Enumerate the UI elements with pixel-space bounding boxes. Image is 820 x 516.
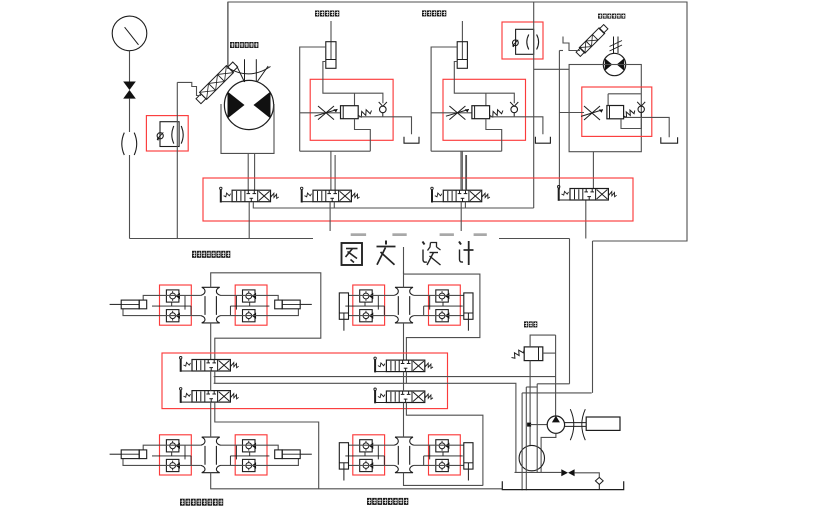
- wire TR cluster feed tee: [403, 274, 405, 287]
- throttle valve c2: [318, 106, 334, 120]
- wire return drop right-outer: [592, 241, 594, 393]
- pilot lines right BL: [230, 455, 269, 457]
- throttle valve 4: [584, 106, 600, 120]
- pilot check block right red frame TR: [429, 285, 461, 325]
- label telescope cylinder: [315, 11, 319, 17]
- check valve c3: [511, 106, 518, 113]
- wire A right TL: [221, 295, 279, 300]
- wire A left TR: [349, 294, 395, 296]
- pilot operated check L2 BL: [166, 459, 179, 471]
- directional valve V6: [313, 190, 351, 202]
- pilot operated check R2 BR: [436, 459, 449, 471]
- pilot lines right BR: [424, 455, 463, 457]
- directional valve V5: [232, 190, 270, 202]
- wire B right TL: [221, 309, 299, 316]
- tank symbol 4: [661, 137, 678, 143]
- wire pilot tee c3: [485, 93, 487, 106]
- directional valve V7: [443, 190, 481, 202]
- pump coupling arcs: [570, 409, 574, 440]
- directional valve V8: [570, 189, 608, 201]
- wire gauge to shutoff: [129, 51, 131, 82]
- pilot check block right red frame BR: [429, 435, 461, 475]
- wire coupling hook to return: [177, 82, 201, 95]
- red frame lower valve bank: [162, 353, 448, 409]
- wire gauge line down to bus: [129, 155, 131, 239]
- wire motor1 return line: [176, 82, 178, 238]
- wire pilot valve branch: [534, 68, 569, 70]
- cross junction block BL: [201, 437, 221, 473]
- pilot operated check R1 TR: [436, 290, 449, 302]
- wire V7 drain drop: [460, 202, 462, 239]
- flow control valve 4 body: [607, 106, 624, 119]
- wire return rail low: [526, 386, 537, 388]
- pilot lines left BL: [152, 455, 191, 457]
- wire V5 drain drop: [248, 202, 250, 239]
- motor M1 mount box: [221, 104, 274, 153]
- pilot check block right red frame TL: [235, 285, 267, 325]
- wire B left TR: [349, 315, 395, 317]
- wire cluster TR feed drop: [403, 239, 405, 275]
- filter F1: [519, 445, 544, 470]
- wire B right TR: [414, 315, 464, 317]
- wire throttle 4 inlet: [559, 112, 584, 114]
- directional valve V12: [386, 391, 424, 403]
- pilot operated check L1 BR: [360, 440, 373, 452]
- wire motor M1 to valve V5 a: [247, 153, 249, 190]
- pilot lines right TR: [424, 305, 463, 307]
- wire to drain check: [575, 473, 600, 478]
- wire return segment B: [537, 383, 569, 385]
- check valve 4: [638, 106, 644, 112]
- motor M2 loop box: [569, 65, 641, 152]
- wire relief drain: [529, 361, 531, 446]
- relief valve RV: [524, 347, 543, 361]
- wire TL cross bottom to valve: [210, 323, 212, 360]
- pilot operated check R2 TL: [243, 310, 256, 322]
- wire TR cluster loop: [404, 274, 480, 360]
- hydraulic motor M1: [224, 80, 273, 129]
- motor M2 shaft marks: [613, 37, 615, 54]
- cylinder left BL: [121, 450, 139, 459]
- wire relief outlet: [543, 352, 556, 354]
- wire BL cross bottom to tank: [211, 473, 503, 489]
- wire V7 tank stub: [464, 202, 466, 208]
- directional valve V10: [192, 391, 230, 403]
- pilot operated check R1 BL: [243, 440, 256, 452]
- flow control spring c3: [490, 110, 503, 117]
- label rotary hydraulic motor: [230, 42, 234, 48]
- pilot lines right TL: [230, 305, 269, 307]
- cylinder right TR: [464, 293, 473, 319]
- wire exit bus c3: [431, 150, 502, 152]
- wire BR cross bottom: [404, 473, 483, 486]
- wire throttle inlet c2: [300, 112, 341, 114]
- wire flow control outlet c2: [358, 117, 411, 134]
- wire B left BR: [349, 464, 395, 466]
- directional valve V9: [192, 360, 230, 372]
- wire pilot loop 4: [621, 119, 641, 129]
- pilot check block left red frame BL: [160, 435, 192, 475]
- pilot operated check R1 BR: [436, 440, 449, 452]
- wire shutoff to hose-break: [129, 99, 131, 132]
- wire to valve a c2: [330, 151, 332, 190]
- wire TR feed visible: [403, 247, 405, 274]
- wire flow control 4 outlet: [624, 117, 670, 137]
- pilot check block right red frame BL: [235, 435, 267, 475]
- junction dot: [527, 423, 531, 427]
- drain check valve: [595, 477, 603, 484]
- wire A right BR: [414, 444, 464, 446]
- pump P1: [547, 416, 564, 433]
- red frame flow control 2: [310, 79, 393, 140]
- red frame pilot valve 4: [502, 22, 543, 59]
- wire tank collector: [515, 471, 562, 473]
- wire mast valve drop: [585, 200, 587, 239]
- wire A right TR: [414, 294, 464, 296]
- pilot operated check R1 TL: [243, 290, 256, 302]
- throttle valve c3: [449, 106, 465, 120]
- wire return drop right-inner: [569, 239, 571, 384]
- cylinder right BL: [282, 450, 300, 459]
- wire motor M2 to valve: [592, 152, 594, 189]
- wire A left BL: [143, 445, 201, 450]
- wire top box drop to coupling: [227, 2, 229, 69]
- wire bypass 4: [607, 94, 609, 106]
- tank symbol c2: [404, 137, 419, 143]
- pilot check block left red frame TR: [353, 285, 385, 325]
- brake valve orifice arcs: [172, 126, 174, 144]
- cylinder right BR: [464, 443, 473, 469]
- wire spine left par: [214, 371, 216, 383]
- watermark halo: [313, 231, 499, 272]
- pilot check block left red frame TL: [160, 285, 192, 325]
- wire motor M1 to valve V5 b: [254, 153, 256, 190]
- pilot valve 4 orifice arcs: [527, 35, 529, 50]
- wire BR jog: [406, 403, 483, 486]
- cylinder left BR: [339, 443, 348, 469]
- wire return drop a: [521, 393, 523, 490]
- label front outrigger: [192, 251, 196, 258]
- shutoff valve V1: [123, 82, 136, 91]
- wire to valve b c2: [334, 155, 336, 190]
- wire cylinder head port c2: [300, 47, 326, 151]
- rotary joint coupling M1: [195, 61, 239, 105]
- wire A left TL: [143, 295, 201, 300]
- watermark remnant dashes: [351, 233, 487, 236]
- wire B right BL: [221, 459, 299, 466]
- wire TL cluster feed loop: [211, 273, 321, 360]
- wire cylinder rod port bypass c2: [323, 62, 383, 104]
- cylinder left TL: [121, 300, 139, 309]
- wire pilot loop c3: [486, 119, 502, 152]
- wire spine right par: [405, 372, 407, 384]
- wire BL jog: [215, 402, 319, 489]
- wire return rail: [214, 383, 516, 472]
- pilot check block left red frame BR: [353, 435, 385, 475]
- cylinder left TR: [339, 293, 348, 319]
- wire cylinder rod line c2: [330, 21, 332, 60]
- pilot valve 4 body: [516, 29, 534, 54]
- wire pilot valve drop: [533, 2, 535, 208]
- watermark text: [342, 243, 363, 265]
- pilot operated check L2 TL: [166, 310, 179, 322]
- wire return rail3: [522, 392, 592, 394]
- wire bottom bus line of top section: [130, 238, 570, 240]
- hydraulic cylinder c3: [457, 42, 467, 69]
- wire spine left low: [210, 402, 212, 437]
- pilot operated check L1 BL: [166, 440, 179, 452]
- cylinder right TL: [282, 300, 300, 309]
- hose break symbol: [122, 133, 125, 155]
- wire V6 drain drop: [329, 202, 331, 239]
- label mast motor: [598, 14, 602, 19]
- wire to valve a c3: [461, 151, 463, 190]
- directional valve V11: [386, 360, 424, 372]
- cross junction block BR: [394, 437, 414, 473]
- wire mast valve feed: [558, 51, 560, 190]
- brake valve body: [160, 122, 179, 147]
- pilot lines left BR: [345, 455, 384, 457]
- label rear outrigger right: [367, 498, 372, 505]
- tank T1: [502, 481, 623, 489]
- label rear outrigger left: [180, 499, 185, 506]
- wire B right BR: [414, 464, 464, 466]
- pilot operated check R2 BL: [243, 459, 256, 471]
- wire throttle inlet c3: [431, 112, 472, 114]
- shutoff valve V2: [561, 469, 568, 476]
- pilot lines left TL: [152, 305, 191, 307]
- label relief valve: [524, 321, 528, 327]
- wire relief pilot top: [530, 335, 556, 347]
- flow control valve body c2: [341, 106, 359, 119]
- wire pump shaft: [565, 422, 587, 424]
- wire to valve b c3: [466, 155, 468, 190]
- wire flow control outlet c3: [490, 117, 543, 134]
- electric motor EM: [586, 417, 620, 430]
- wire TR cross bottom to valve: [403, 323, 405, 360]
- wire cylinder rod port bypass c3: [454, 62, 514, 104]
- pilot operated check R2 TR: [436, 310, 449, 322]
- wire pump pressure line: [555, 335, 557, 416]
- wire B left BL: [123, 459, 201, 466]
- wire V6 tank stub: [333, 202, 335, 208]
- wire V7 feeds: [460, 151, 462, 190]
- check valve c2: [380, 106, 387, 113]
- wire B left TL: [123, 309, 201, 316]
- wire supply rail: [214, 376, 556, 378]
- pilot operated check L1 TL: [166, 290, 179, 302]
- flow control valve body c3: [472, 106, 490, 119]
- wire return drop b: [525, 387, 527, 490]
- hydraulic motor M2: [603, 53, 625, 75]
- wire exit bus c2: [300, 150, 371, 152]
- cross junction block TR: [394, 287, 414, 323]
- hydraulic cylinder c2: [326, 42, 336, 69]
- red frame main valve bank: [203, 178, 633, 221]
- wire A left BR: [349, 444, 395, 446]
- wire coupling hook 4: [563, 37, 580, 51]
- pilot operated check L2 TR: [360, 310, 373, 322]
- pilot operated check L1 TR: [360, 290, 373, 302]
- flow control 4 spring: [624, 110, 635, 117]
- wire spine left mid: [210, 371, 212, 391]
- red frame brake valve: [146, 116, 188, 151]
- wire segment B drop: [536, 384, 538, 473]
- pilot operated check L2 BR: [360, 459, 373, 471]
- wire A right BL: [221, 445, 279, 450]
- wire cylinder rod line c3: [461, 21, 463, 60]
- wire spine right low: [403, 403, 405, 438]
- wire V5 tank branch: [253, 202, 533, 208]
- wire pilot loop c2: [355, 119, 371, 152]
- pressure gauge: [112, 16, 147, 51]
- tank symbol c3: [535, 137, 550, 143]
- red frame flow control 3: [443, 79, 526, 140]
- wire cylinder head port c3: [431, 47, 457, 151]
- wire spine right mid: [403, 372, 405, 391]
- brake valve pilot circle: [157, 133, 163, 139]
- flow control spring c2: [358, 110, 371, 117]
- wire pilot tee c2: [354, 93, 356, 106]
- cross junction block TL: [201, 287, 221, 323]
- red frame flow control 4: [582, 87, 652, 136]
- wire outer boundary of top circuit: [228, 2, 687, 241]
- motor M1 governor fan: [244, 59, 246, 82]
- pilot lines left TR: [345, 305, 384, 307]
- rotary joint coupling M2: [575, 24, 608, 57]
- wire pump suction: [541, 433, 556, 472]
- pilot valve 4 circle: [513, 40, 519, 46]
- label luffing cylinder: [422, 10, 426, 16]
